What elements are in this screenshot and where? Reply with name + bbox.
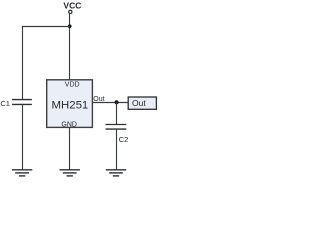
ground below C2 [106, 170, 126, 176]
junction dot Out node [115, 100, 119, 104]
svg-text:C2: C2 [119, 135, 129, 144]
svg-text:VCC: VCC [63, 0, 81, 10]
capacitor C2 [106, 125, 127, 130]
wire Out node down to C2 [116, 102, 118, 124]
capacitor C1 [12, 100, 32, 105]
ground below U1 [60, 170, 80, 176]
output connector box Out [128, 97, 156, 109]
wire GND pin to ground [69, 127, 71, 169]
wire Out pin to output connector [93, 102, 128, 104]
svg-text:C1: C1 [0, 99, 10, 108]
wire C1 bottom to ground [22, 104, 24, 169]
svg-text:VDD: VDD [65, 81, 80, 88]
IC U1 MH251 body [47, 80, 93, 128]
svg-text:Out: Out [93, 96, 104, 103]
svg-text:Out: Out [132, 98, 146, 108]
wire VCC vertical to VDD pin [69, 14, 71, 80]
wire C2 bottom to ground [116, 129, 118, 169]
ground below C1 [12, 170, 32, 176]
svg-text:GND: GND [61, 121, 77, 128]
junction dot VCC node [68, 24, 72, 28]
svg-text:MH251: MH251 [52, 99, 89, 111]
wire horizontal VCC node to C1 branch [22, 26, 70, 28]
power terminal circle VCC [69, 10, 72, 13]
wire vertical down to C1 top [22, 26, 24, 100]
